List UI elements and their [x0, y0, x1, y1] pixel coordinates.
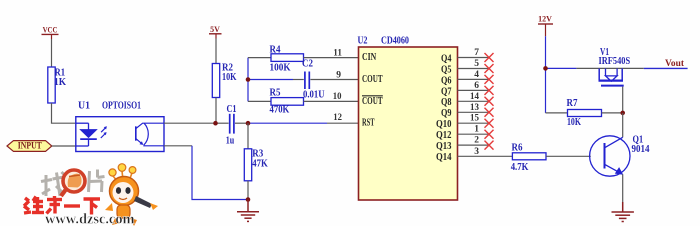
svg-text:1u: 1u — [226, 136, 235, 147]
svg-text:1: 1 — [474, 125, 479, 135]
svg-text:R6: R6 — [512, 142, 523, 153]
pin Q13 (2) — [458, 136, 494, 150]
svg-text:RST: RST — [362, 118, 375, 129]
pin Q12 (1) — [458, 125, 494, 139]
node C junction (R3/emitter/ground) — [246, 197, 251, 202]
pin Q8 (14) — [458, 92, 494, 106]
svg-text:COUT: COUT — [362, 96, 383, 107]
svg-text:470K: 470K — [270, 104, 290, 115]
svg-text:12V: 12V — [538, 14, 552, 23]
op-to isolator U1 OPTOISO1 — [76, 101, 164, 152]
wire opto emitter down to ground rail — [164, 145, 192, 147]
junction 12V rail — [543, 66, 548, 71]
resistor R6 — [511, 142, 546, 173]
ground (left) — [237, 200, 259, 222]
svg-text:4: 4 — [474, 70, 479, 80]
wire node D to Q1 collector — [622, 113, 624, 137]
svg-text:OPTOISO1: OPTOISO1 — [102, 101, 141, 112]
svg-text:1K: 1K — [54, 77, 66, 88]
svg-text:Vout: Vout — [665, 58, 684, 68]
watermark logo: mascot — [105, 164, 158, 226]
svg-text:5V: 5V — [210, 25, 220, 34]
svg-text:12: 12 — [333, 113, 342, 123]
capacitor C2 — [302, 58, 325, 100]
ground (right) — [612, 202, 634, 222]
wire opto collector to node A — [164, 122, 216, 124]
svg-text:R4: R4 — [270, 44, 281, 55]
svg-text:2: 2 — [474, 136, 479, 146]
svg-text:Q7: Q7 — [441, 86, 452, 97]
light arrows inside U1 — [101, 134, 105, 138]
svg-text:5: 5 — [474, 59, 479, 69]
power port 12V — [538, 14, 553, 36]
LED inside U1 — [76, 122, 89, 124]
watermark logo: character 找 — [41, 172, 66, 196]
svg-text:7: 7 — [474, 48, 479, 58]
svg-text:C2: C2 — [302, 58, 313, 69]
vertical bus wire (R4/C2/R5 left) — [247, 58, 249, 102]
resistor R7 — [567, 98, 602, 128]
power port 5V — [209, 25, 222, 39]
transistor Q1 9014 — [590, 134, 650, 176]
svg-text:10K: 10K — [222, 72, 237, 83]
wire 12V down to rail — [545, 36, 547, 113]
svg-text:10K: 10K — [567, 117, 581, 128]
resistor R1 — [48, 67, 66, 103]
wire R7 to node D — [602, 112, 623, 114]
phototransistor inside U1 — [135, 126, 137, 140]
wire Q14 to R6 — [490, 155, 513, 157]
wire bus to C2 — [248, 79, 293, 81]
watermark logo: red text 维库一下 — [24, 196, 100, 215]
svg-text:COUT: COUT — [362, 74, 383, 85]
power port VCC — [42, 25, 59, 39]
wire C2 to pin 9 — [310, 79, 358, 81]
svg-text:Q13: Q13 — [436, 141, 452, 152]
svg-text:10: 10 — [333, 92, 342, 102]
svg-text:Q9: Q9 — [441, 108, 452, 119]
svg-text:CD4060: CD4060 — [381, 36, 409, 47]
svg-text:4.7K: 4.7K — [511, 162, 529, 173]
svg-text:U1: U1 — [78, 101, 90, 112]
svg-text:15: 15 — [470, 114, 479, 124]
svg-text:Q6: Q6 — [441, 75, 452, 86]
wire node B to pin 12 RST — [248, 122, 327, 124]
svg-text:13: 13 — [470, 103, 479, 113]
svg-text:Q5: Q5 — [441, 64, 452, 75]
svg-text:14: 14 — [470, 92, 479, 102]
svg-text:6: 6 — [474, 81, 479, 91]
wire VCC to R1 — [51, 39, 53, 67]
resistor R5 — [270, 88, 304, 116]
pin Q4 (7) — [458, 48, 494, 62]
svg-text:11: 11 — [333, 48, 342, 58]
wire MOSFET drain to Vout — [644, 67, 688, 69]
pin Q5 (5) — [458, 59, 494, 73]
wire 12V to MOSFET source — [546, 67, 577, 69]
pin Q14 (3) — [458, 147, 490, 157]
wire R4 to pin 11 — [304, 57, 359, 59]
svg-text:9014: 9014 — [632, 144, 650, 155]
svg-text:Q8: Q8 — [441, 97, 452, 108]
svg-text:R7: R7 — [567, 98, 578, 109]
wire R1 to opto anode — [52, 103, 76, 123]
wire R6 to Q1 base — [546, 155, 591, 157]
MOSFET V1 IRF540S — [576, 47, 643, 85]
pin Q6 (4) — [458, 70, 494, 84]
junction bus/C2 — [246, 77, 251, 82]
pin Q10 (15) — [458, 114, 494, 128]
svg-text:Q12: Q12 — [436, 130, 452, 141]
watermark logo: character 片 — [89, 170, 105, 193]
svg-text:C1: C1 — [227, 104, 237, 115]
svg-text:47K: 47K — [252, 158, 268, 169]
node D junction (R7/gate/collector) — [620, 111, 625, 116]
wire 12V rail to R7 — [546, 112, 568, 114]
node A junction (R2/C1/opto) — [213, 121, 218, 126]
svg-text:Q10: Q10 — [436, 119, 452, 130]
wire INPUT to opto cathode — [52, 145, 76, 147]
wire R5 to pin 10 — [304, 100, 359, 102]
wire gate down to node D — [622, 87, 624, 113]
wire R2 to node A — [215, 98, 217, 124]
svg-text:100K: 100K — [270, 63, 291, 74]
svg-text:U2: U2 — [358, 36, 368, 47]
svg-text:9: 9 — [336, 70, 341, 80]
svg-text:R5: R5 — [270, 88, 281, 99]
pin Q9 (13) — [458, 103, 494, 117]
node B junction (C1/RST/R3) — [246, 121, 251, 126]
svg-text:3: 3 — [474, 147, 479, 157]
wire bus to R4 — [248, 57, 271, 59]
wire Q1 emitter to ground — [622, 174, 624, 202]
wire bus to R5 — [248, 100, 271, 102]
wire 5V to R2 — [215, 39, 217, 64]
svg-text:www.dzsc.com: www.dzsc.com — [45, 212, 135, 227]
svg-text:0.01U: 0.01U — [303, 90, 325, 101]
port INPUT — [7, 141, 52, 152]
resistor R2 — [212, 62, 236, 97]
resistor R3 — [244, 123, 268, 199]
capacitor C1 — [216, 104, 249, 146]
svg-text:INPUT: INPUT — [18, 141, 42, 151]
resistor R4 — [270, 44, 304, 73]
svg-text:IRF540S: IRF540S — [599, 56, 631, 67]
svg-text:Q4: Q4 — [441, 54, 452, 65]
watermark logo: magnifier with hand — [61, 170, 85, 196]
svg-text:Q14: Q14 — [436, 152, 452, 163]
pin Q7 (6) — [458, 81, 494, 95]
svg-text:CIN: CIN — [362, 52, 377, 63]
IC U2 CD4060 — [358, 36, 458, 200]
svg-text:VCC: VCC — [43, 25, 58, 34]
